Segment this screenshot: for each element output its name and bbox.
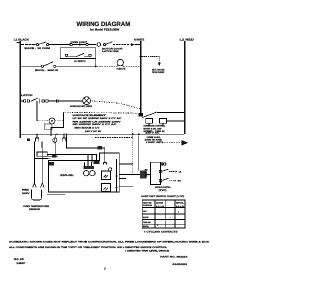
stubs to terminal band <box>88 155 92 163</box>
hatch box junction <box>140 171 146 179</box>
junction blob near box B top <box>98 146 103 150</box>
wire sensor horiz <box>34 158 48 160</box>
table rows <box>142 208 185 225</box>
sensor twin wires <box>34 142 42 184</box>
terminal oven light b <box>86 43 88 45</box>
svg-text:W.D. 100: W.D. 100 <box>14 258 25 261</box>
connector pair b row3 <box>42 100 45 103</box>
svg-text:SENSOR: SENSOR <box>29 208 40 211</box>
table columns <box>155 200 175 228</box>
svg-text:(TYP): (TYP) <box>159 189 167 192</box>
box B inner box 2 <box>102 184 111 192</box>
box light switch <box>60 48 96 59</box>
svg-text:SURFACE CONTROL: SURFACE CONTROL <box>143 125 165 128</box>
wire neutral ground <box>142 57 160 64</box>
switch row1 right blade <box>106 42 113 45</box>
plug box 1 <box>146 119 153 124</box>
svg-text:L1 L2: L1 L2 <box>156 205 164 208</box>
svg-text:LT. SWITCH: LT. SWITCH <box>74 60 86 63</box>
wire lamp to N <box>124 65 140 67</box>
junction dot neutral ground <box>140 55 142 57</box>
wire x55 drop <box>55 142 57 154</box>
svg-text:240 V AC 60: 240 V AC 60 <box>85 130 102 133</box>
svg-text:RD: RD <box>178 180 181 183</box>
connector pair a row3 <box>23 100 26 103</box>
svg-text:SURFACE ELEMENT: SURFACE ELEMENT <box>73 114 107 117</box>
svg-text:BROIL · 2600 W: BROIL · 2600 W <box>35 69 59 72</box>
svg-text:4345293: 4345293 <box>172 263 188 266</box>
wire row3 stub <box>21 100 23 102</box>
wire plug drops <box>149 123 163 126</box>
wire tap to hatch box <box>138 136 140 171</box>
wire L box B feed <box>67 134 105 162</box>
svg-text:14847: 14847 <box>16 262 26 265</box>
svg-text:•: • <box>170 216 171 219</box>
box oven control unified <box>49 153 120 192</box>
wire dashed y137 <box>95 137 133 139</box>
connector circle row1 <box>97 43 101 47</box>
plug box 2 <box>160 119 167 124</box>
box A terminals band <box>84 166 95 169</box>
callout arrow <box>182 140 189 146</box>
svg-text:4 SURF. UNITS: 4 SURF. UNITS <box>146 141 164 144</box>
bus N <box>140 41 142 114</box>
lamp legs <box>117 65 123 66</box>
box B terminal <box>104 163 107 165</box>
tap x67 connector <box>62 134 65 141</box>
wire latch drop <box>36 101 38 121</box>
connector tick L1 top <box>17 42 20 44</box>
switch row1 right terminal <box>103 44 105 46</box>
box A circle pair <box>84 171 89 176</box>
terminal in box a <box>65 54 67 56</box>
switch bake blade <box>39 42 47 45</box>
table frame <box>142 200 185 228</box>
svg-text:LATCH SW.: LATCH SW. <box>102 50 119 53</box>
svg-text:BAKE: BAKE <box>156 202 164 205</box>
box B inner bus <box>116 159 118 192</box>
switch latch blade <box>31 98 39 102</box>
junction dot row2 <box>95 65 97 67</box>
terminal in box b <box>89 54 91 56</box>
wire row2 mid <box>56 65 95 67</box>
switch broil blade <box>44 62 54 66</box>
svg-text:RED: RED <box>22 188 30 191</box>
svg-text:180-NL: 180-NL <box>60 174 75 177</box>
connector arrow row1 <box>131 43 135 46</box>
terminal circle box B <box>109 168 112 171</box>
svg-text:SURF UNIT SWITCH CHART (1 OF): SURF UNIT SWITCH CHART (1 OF) <box>141 195 184 198</box>
wire dotted x37 branch <box>37 120 64 122</box>
svg-text:L2: L2 <box>179 170 182 173</box>
node row1 split <box>60 44 61 45</box>
svg-text:240 V AC: 240 V AC <box>145 131 160 134</box>
wire oven light terminals <box>60 44 96 46</box>
switch in box blade <box>68 53 89 57</box>
svg-text:OFF: OFF <box>143 210 148 213</box>
control contact 1 <box>159 170 162 173</box>
svg-text:FROM CABINET: FROM CABINET <box>152 71 165 74</box>
svg-text:OVEN LITE: OVEN LITE <box>117 68 126 71</box>
control contact 2 <box>159 179 162 182</box>
svg-text:SURFACE CONTROL: SURFACE CONTROL <box>155 186 171 189</box>
svg-text:7: 7 <box>104 267 106 271</box>
svg-text:L1 L2: L1 L2 <box>176 205 184 208</box>
svg-text:BROIL: BROIL <box>176 202 185 205</box>
svg-text:OVEN TEMPERATURE: OVEN TEMPERATURE <box>23 205 49 208</box>
switch surface top blade <box>143 112 158 118</box>
svg-text:♦ DENOTES TRIM LEVEL DEVICE: ♦ DENOTES TRIM LEVEL DEVICE <box>125 249 170 252</box>
tap x37 connector <box>36 134 39 141</box>
relay box dashed <box>45 124 53 130</box>
sensor prong a <box>33 183 37 188</box>
wire row2 dashed to lamp <box>97 65 117 67</box>
bus L1 junction dots <box>19 44 21 46</box>
svg-text:SURFACE UNIT 2350W: SURFACE UNIT 2350W <box>70 105 93 108</box>
tap x57 connector <box>55 134 56 143</box>
svg-text:L2 RED: L2 RED <box>180 38 194 41</box>
control box <box>151 162 161 184</box>
junction dots y134 <box>36 134 38 136</box>
svg-text:HEAT SW: HEAT SW <box>143 202 152 205</box>
wire row1 mid <box>49 44 61 46</box>
svg-text:P2: P2 <box>145 175 148 178</box>
svg-text:MIN BAKE 2 CY: MIN BAKE 2 CY <box>75 126 101 129</box>
junction blob left <box>27 139 30 142</box>
svg-text:MOTOR DOOR: MOTOR DOOR <box>102 47 123 50</box>
svg-text:L1 BLACK: L1 BLACK <box>14 38 29 42</box>
switch bake terminal a <box>36 44 38 46</box>
svg-text:BAKE · 16 OHM: BAKE · 16 OHM <box>25 47 51 50</box>
svg-text:N WHITE: N WHITE <box>134 38 144 41</box>
wire row2 left <box>21 65 41 67</box>
svg-text:×: × <box>157 224 159 227</box>
terminal oven light a <box>70 43 72 45</box>
svg-text:PART NO. 983219: PART NO. 983219 <box>160 256 188 259</box>
svg-text:♦: ♦ <box>178 211 180 214</box>
svg-text:TIME BK: TIME BK <box>143 221 151 224</box>
wire row1 left <box>21 44 36 46</box>
svg-text:LF 2K RF 2350W 240V 2 CY AC: LF 2K RF 2350W 240V 2 CY AC <box>73 117 123 120</box>
terminal blob box A left b <box>49 162 54 166</box>
svg-text:2400 W AND: 2400 W AND <box>145 139 163 142</box>
svg-text:P1: P1 <box>145 172 148 175</box>
svg-text:OVEN LIGHT: OVEN LIGHT <box>71 41 88 44</box>
svg-text:SR 2350W 240V 2 CY AC: SR 2350W 240V 2 CY AC <box>73 123 118 126</box>
switch bake terminal b <box>47 44 49 46</box>
wire L branch <box>51 112 64 136</box>
svg-text:LATCH: LATCH <box>21 94 33 97</box>
wire y121 to L2 <box>166 120 183 122</box>
box B inner box 1 <box>102 171 111 180</box>
svg-text:RR 1250W LR 2350W 240V: RR 1250W LR 2350W 240V <box>73 120 122 123</box>
box A bottom line <box>47 194 65 196</box>
svg-text:WITH 6-IN. SW: WITH 6-IN. SW <box>143 127 162 130</box>
svg-text:POSITION: POSITION <box>143 204 153 207</box>
wire row1 to N <box>135 44 140 46</box>
wire box B to hatch <box>133 173 140 175</box>
connector circle branch <box>49 118 55 124</box>
svg-text:BROIL: BROIL <box>143 225 150 228</box>
svg-text:240V: 240V <box>22 192 30 195</box>
wire vertical x132 <box>132 129 134 174</box>
box B stubs right <box>119 164 133 187</box>
wire box to row2 <box>95 58 97 65</box>
switch broil terminal b <box>54 65 56 67</box>
svg-text:BK: BK <box>145 169 148 172</box>
sensor sheath <box>32 190 42 201</box>
wire hatch to control box <box>146 174 150 176</box>
svg-text:BAKE: BAKE <box>143 216 149 219</box>
junction blob N bottom <box>139 113 143 117</box>
svg-text:for Model FES310BW: for Model FES310BW <box>90 27 120 31</box>
wire y112 to L2 <box>157 111 184 113</box>
arrowhead neutral ground <box>158 62 161 66</box>
junction dot oven light <box>79 44 81 46</box>
svg-text:SCHEMATIC SHOWN DOES NOT REFLE: SCHEMATIC SHOWN DOES NOT REFLECT TRUE CO… <box>9 240 210 243</box>
control box top terminals <box>161 163 163 165</box>
wire stubs sensor box <box>47 157 58 159</box>
sensor prong b <box>41 183 45 188</box>
wire row1 right dashed <box>113 44 131 46</box>
wire main horizontal y134 <box>21 133 184 135</box>
svg-text:ONE 8-IN.: ONE 8-IN. <box>147 136 162 139</box>
svg-text:♦ CYCLING CONTACTS: ♦ CYCLING CONTACTS <box>144 230 178 233</box>
connector box sensor lead <box>37 152 47 156</box>
indicator lamp X <box>84 98 89 103</box>
switch broil terminal a <box>41 65 43 67</box>
wire dotted row3b <box>64 111 140 114</box>
terminal row3 <box>57 100 58 103</box>
wire row3 mid <box>49 100 83 102</box>
connector blob box A top right <box>94 161 100 165</box>
bus L1 <box>20 41 22 138</box>
callout wire <box>164 141 181 143</box>
bus L2 <box>184 41 186 134</box>
lamp oven lite <box>117 59 123 65</box>
terminal blob box A left a <box>52 155 57 158</box>
indicator lamp surface <box>83 97 91 105</box>
wire row3 dotted to N <box>91 101 140 109</box>
svg-text:ALL COMPONENTS ARE SHOWN IN TH: ALL COMPONENTS ARE SHOWN IN THE “OFF” OR… <box>9 246 168 249</box>
tick row3 <box>39 99 41 104</box>
wire sensor to box A <box>47 155 96 163</box>
